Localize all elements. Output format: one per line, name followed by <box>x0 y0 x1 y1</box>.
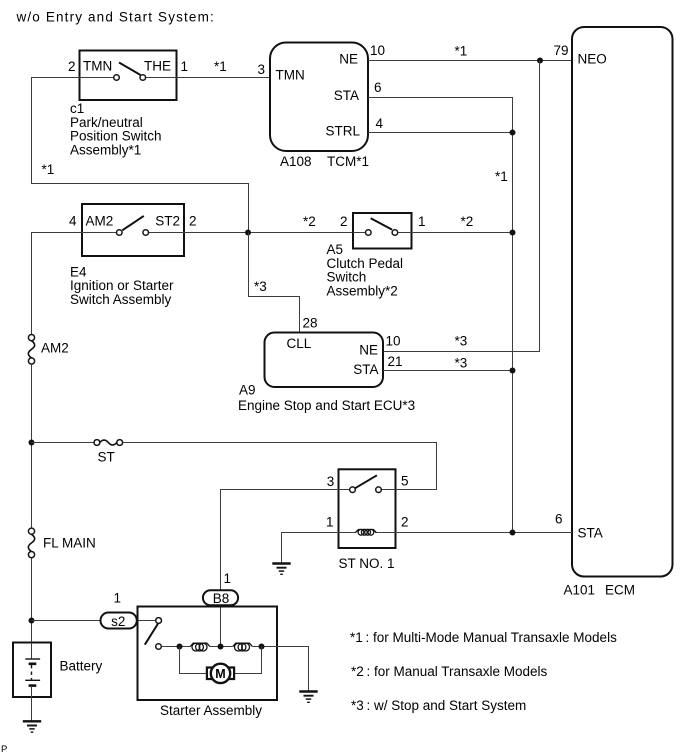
wire *3 branch to A9 pin28 <box>249 233 300 333</box>
svg-text:STA: STA <box>578 526 603 541</box>
switch E4 contacts <box>117 230 149 236</box>
wire main vertical AM2 to FLMAIN <box>31 364 33 528</box>
svg-text:*1: *1 <box>214 59 227 74</box>
svg-text:Assembly*2: Assembly*2 <box>327 283 398 298</box>
battery dashed link <box>31 665 33 680</box>
coil starter 1 <box>190 643 210 651</box>
wire coil2 to ground run <box>252 647 308 692</box>
switch c1 contacts <box>114 75 146 81</box>
svg-text:*2 : for Manual Transaxle Mode: *2 : for Manual Transaxle Models <box>351 664 548 679</box>
svg-text:10: 10 <box>386 334 401 349</box>
wire c1 inner stubs <box>80 77 114 79</box>
svg-text:2: 2 <box>340 214 348 229</box>
svg-text:Battery: Battery <box>60 659 103 674</box>
svg-text:AM2: AM2 <box>41 341 69 356</box>
svg-text:4: 4 <box>376 116 384 131</box>
battery plate short 2 <box>29 684 37 687</box>
relay coil <box>339 532 356 534</box>
svg-text:1: 1 <box>114 591 122 606</box>
wire B8 to starter coil <box>220 605 222 646</box>
svg-text:B8: B8 <box>213 591 230 606</box>
ground starter <box>299 692 317 703</box>
wire battery node to s2 <box>32 620 101 622</box>
svg-text:10: 10 <box>370 43 385 58</box>
battery top terminal <box>31 643 33 659</box>
svg-text:*2: *2 <box>303 214 316 229</box>
node A5 out junction <box>510 230 516 236</box>
switch c1 box <box>80 51 177 101</box>
wire relay pin1 to ground <box>282 533 339 564</box>
svg-text:A5: A5 <box>327 242 344 257</box>
svg-text:*1: *1 <box>455 44 468 59</box>
svg-text:5: 5 <box>401 474 409 489</box>
svg-text:AM2: AM2 <box>86 214 114 229</box>
svg-text:1: 1 <box>224 571 232 586</box>
svg-text:3: 3 <box>327 474 335 489</box>
node E4 out junction <box>245 230 251 236</box>
wire to motor left <box>180 647 208 674</box>
svg-text:Switch: Switch <box>327 270 367 285</box>
switch A5 contacts <box>366 230 398 236</box>
svg-text:Engine Stop and Start ECU*3: Engine Stop and Start ECU*3 <box>238 398 415 413</box>
wire relay inner stubs <box>339 489 350 491</box>
starter switch contacts <box>156 618 162 650</box>
svg-text:STRL: STRL <box>325 124 360 139</box>
relay ST NO.1 box <box>339 469 396 548</box>
svg-text:STA: STA <box>334 88 359 103</box>
wire main vertical FLMAIN to battery <box>31 558 33 643</box>
wire TCM NE to ECM NEO <box>368 60 572 62</box>
svg-text:2: 2 <box>401 515 409 530</box>
svg-text:w/o Entry and Start System:: w/o Entry and Start System: <box>16 10 215 25</box>
svg-text:s2: s2 <box>111 614 125 629</box>
switch A5 blade <box>371 218 392 229</box>
ground relay <box>272 564 290 575</box>
svg-text:STA: STA <box>353 362 378 377</box>
svg-text:NE: NE <box>339 52 358 67</box>
switch E4 box <box>82 204 184 256</box>
ECM U A101 box <box>572 27 673 577</box>
svg-text:M: M <box>215 667 225 681</box>
wire between coils <box>210 646 233 648</box>
node A9 STA junction <box>510 368 516 374</box>
wire s2 to starter switch <box>137 620 156 622</box>
svg-text:Assembly*1: Assembly*1 <box>70 142 141 157</box>
svg-text:*1: *1 <box>495 169 508 184</box>
svg-text:21: 21 <box>388 354 403 369</box>
coil starter 2 <box>233 643 253 651</box>
svg-text:TCM*1: TCM*1 <box>327 154 369 169</box>
switch E4 blade <box>122 216 144 230</box>
ECU A9 box <box>265 333 384 388</box>
svg-text:1: 1 <box>326 515 334 530</box>
svg-text:A101: A101 <box>564 583 596 598</box>
svg-text:3: 3 <box>258 62 266 77</box>
battery box <box>13 643 51 698</box>
svg-text:28: 28 <box>303 316 318 331</box>
svg-text:2: 2 <box>68 59 76 74</box>
wire NE branch down to A9 <box>383 61 540 352</box>
svg-text:ST: ST <box>98 450 115 465</box>
wire to motor right <box>234 647 262 674</box>
relay blade <box>355 475 377 488</box>
wire E4 pin4 to main vertical <box>32 233 83 335</box>
wire relay pin2 to ECM STA <box>396 532 573 534</box>
svg-text:6: 6 <box>374 80 382 95</box>
ground battery <box>23 721 41 732</box>
starter assembly box <box>138 607 278 701</box>
svg-text:A108: A108 <box>280 154 312 169</box>
fuse ST <box>94 440 123 446</box>
svg-text:NEO: NEO <box>578 52 607 67</box>
svg-text:1: 1 <box>418 214 426 229</box>
switch c1 blade <box>119 63 141 76</box>
svg-text:Switch Assembly: Switch Assembly <box>70 292 172 307</box>
node starter B8 junction <box>218 644 224 650</box>
svg-text:ST2: ST2 <box>155 214 180 229</box>
wire starter inner left <box>161 646 190 648</box>
svg-text:TMN: TMN <box>276 68 305 83</box>
relay contacts <box>350 487 382 493</box>
wire A5 inner stubs <box>353 232 365 234</box>
svg-text:CLL: CLL <box>287 336 312 351</box>
switch A5 box <box>353 213 412 249</box>
svg-text:c1: c1 <box>70 101 84 116</box>
svg-text:NE: NE <box>359 343 378 358</box>
starter switch blade <box>145 624 158 645</box>
svg-text:*3: *3 <box>455 356 468 371</box>
battery plate long 1 <box>25 658 40 660</box>
svg-text:TMN: TMN <box>83 59 112 74</box>
battery plate short 1 <box>29 662 37 665</box>
wire E4 inner stubs <box>82 232 116 234</box>
svg-text:THE: THE <box>144 59 171 74</box>
svg-text:P: P <box>1 744 7 755</box>
wire TCM STRL <box>368 132 513 134</box>
motor M circle <box>211 664 230 683</box>
wire A5 pin1 to STA vertical <box>412 232 513 234</box>
svg-text:2: 2 <box>189 214 197 229</box>
svg-text:4: 4 <box>69 214 77 229</box>
wire ST to relay pin5 <box>123 443 437 490</box>
svg-text:FL MAIN: FL MAIN <box>43 536 96 551</box>
node STA junction at ECM <box>510 530 516 536</box>
wire c1 pin2 to branch <box>32 78 249 233</box>
wire TCM STA down <box>368 98 513 533</box>
fusible link FL MAIN <box>28 528 34 558</box>
svg-text:*1 : for Multi-Mode Manual Tra: *1 : for Multi-Mode Manual Transaxle Mod… <box>350 630 617 645</box>
node starter right junction <box>259 644 265 650</box>
battery plate long 2 <box>25 679 40 681</box>
svg-text:ECM: ECM <box>605 583 635 598</box>
node ST branch <box>29 440 35 446</box>
svg-text:*3 : w/ Stop and Start System: *3 : w/ Stop and Start System <box>351 698 526 713</box>
node starter left junction <box>177 644 183 650</box>
svg-text:*2: *2 <box>461 214 474 229</box>
svg-text:1: 1 <box>181 59 189 74</box>
svg-text:79: 79 <box>554 43 569 58</box>
fusible link AM2 <box>28 335 34 365</box>
svg-text:*3: *3 <box>455 334 468 349</box>
svg-text:A9: A9 <box>239 383 256 398</box>
svg-text:Starter Assembly: Starter Assembly <box>160 703 262 718</box>
TCM U A108 box <box>270 43 368 152</box>
svg-text:6: 6 <box>555 512 563 527</box>
motor M bracket left <box>207 668 214 680</box>
wire ST fuse line <box>32 442 95 444</box>
svg-text:ST NO. 1: ST NO. 1 <box>339 556 395 571</box>
wire c1 pin1 to TCM pin3 <box>177 77 271 79</box>
svg-text:*1: *1 <box>42 162 55 177</box>
node NE junction <box>537 58 543 64</box>
node STRL junction <box>510 130 516 136</box>
node s2 branch <box>29 618 35 624</box>
wire A9 STA to vertical <box>383 370 513 372</box>
svg-text:*3: *3 <box>254 279 267 294</box>
connector s2 <box>101 613 137 629</box>
battery bottom terminal <box>31 686 33 721</box>
wire E4 pin2 to A5 <box>184 232 353 234</box>
motor M bracket right <box>228 668 235 680</box>
wire relay pin3 to B8 <box>221 490 339 591</box>
connector B8 <box>203 590 238 605</box>
